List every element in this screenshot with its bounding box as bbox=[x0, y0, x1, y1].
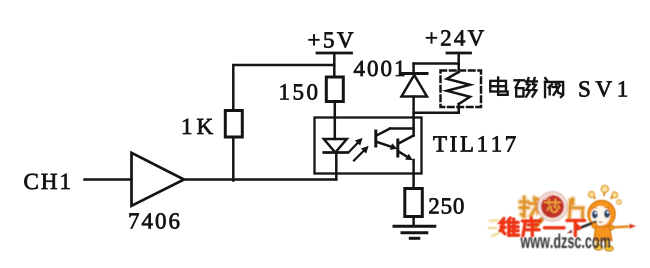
right arm with stick bbox=[610, 227, 629, 228]
wire CH1 to inverter input bbox=[85, 178, 132, 181]
solenoid coil L1 bbox=[447, 72, 470, 113]
磁 bbox=[515, 79, 525, 81]
gold character pian bbox=[569, 199, 583, 218]
solenoid valve SV1 dashed enclosure bbox=[441, 71, 482, 108]
label +5V bbox=[309, 32, 354, 47]
wire node to resistor R1 bottom bbox=[232, 137, 235, 181]
resistor R2 150 bbox=[326, 77, 343, 102]
wire collector node down into optocoupler bbox=[412, 97, 415, 136]
legs and shoes bbox=[597, 241, 601, 246]
label +24V bbox=[426, 30, 484, 46]
label 150 bbox=[281, 84, 318, 100]
label 1K bbox=[183, 119, 213, 134]
label 250 bbox=[429, 198, 463, 214]
left arm with pen bbox=[571, 222, 597, 232]
node CH1 input label bbox=[24, 174, 69, 189]
diode D1 4001 bbox=[402, 64, 428, 97]
resistor R1 1K bbox=[225, 111, 242, 138]
wire diode top to +24V rail bbox=[414, 62, 459, 65]
gold character zhao bbox=[520, 197, 541, 216]
transistor Q1 first stage of optocoupler bbox=[376, 129, 414, 150]
label 电磁阀 SV1 bbox=[490, 78, 627, 98]
op-amp U2 optocoupler TIL117 box bbox=[315, 118, 422, 174]
sparkle dashes bbox=[489, 220, 498, 236]
mascot bbox=[567, 185, 637, 251]
label 7406 bbox=[130, 213, 180, 229]
label 4001 bbox=[354, 61, 404, 76]
resistor R3 250 bbox=[405, 189, 423, 217]
wire inverter output to LED cathode node bbox=[184, 178, 336, 181]
red url www.dzsc.com bbox=[520, 234, 610, 249]
red text wei ku yi xia bbox=[500, 218, 585, 236]
wire resistor R3 to ground bbox=[412, 217, 415, 227]
电 bbox=[490, 81, 506, 92]
magnifier with xin bbox=[534, 192, 568, 229]
power +5V terminal bbox=[317, 53, 352, 77]
阀 bbox=[545, 78, 547, 80]
watermark logo dzsc bbox=[489, 185, 636, 251]
LED D2 inside optocoupler bbox=[324, 139, 347, 153]
light arrows bbox=[349, 139, 369, 161]
power +24V terminal bbox=[447, 53, 471, 72]
inverter U1 7406 bbox=[132, 153, 185, 206]
label TIL117 bbox=[433, 136, 515, 151]
wire emitter to resistor R3 bbox=[412, 160, 415, 189]
wire coil and diode bottoms bbox=[414, 112, 459, 115]
ground bbox=[394, 226, 435, 238]
transistor Q2 output stage of optocoupler bbox=[398, 136, 414, 160]
wire LED cathode to output node bbox=[335, 153, 338, 180]
wire resistor R2 bottom to LED anode bbox=[334, 102, 337, 140]
wire resistor R1 top to +5V rail bbox=[233, 65, 334, 111]
